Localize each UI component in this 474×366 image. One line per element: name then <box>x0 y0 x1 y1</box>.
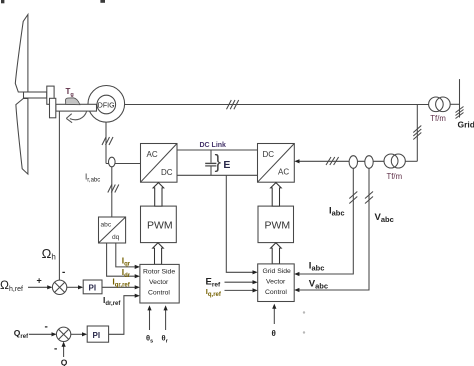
svg-text:Vector: Vector <box>266 279 286 286</box>
svg-text:Iabc: Iabc <box>309 261 325 273</box>
svg-text:Ωh,ref: Ωh,ref <box>0 278 23 293</box>
svg-text:Ωh: Ωh <box>42 246 56 262</box>
svg-text:θr: θr <box>162 334 169 345</box>
svg-text:Vector: Vector <box>149 279 169 286</box>
svg-text:θ: θ <box>272 329 276 338</box>
svg-text:PWM: PWM <box>265 220 291 232</box>
svg-text:PI: PI <box>89 284 97 293</box>
svg-text:+: + <box>37 276 42 286</box>
svg-text:Iabc: Iabc <box>329 206 345 218</box>
svg-text:abc: abc <box>101 222 112 229</box>
svg-text:Control: Control <box>148 290 170 297</box>
svg-text:E: E <box>223 159 230 171</box>
svg-text:Ir,abc: Ir,abc <box>85 173 100 184</box>
svg-text:Grid: Grid <box>458 120 474 130</box>
svg-text:Qref: Qref <box>14 328 29 340</box>
svg-text:Grid Side: Grid Side <box>263 268 292 275</box>
svg-text:Tf/m: Tf/m <box>430 114 446 123</box>
svg-text:dq: dq <box>112 234 120 241</box>
svg-text:Tg: Tg <box>66 87 74 98</box>
svg-text:DC Link: DC Link <box>200 142 227 149</box>
svg-text:-: - <box>54 344 57 355</box>
svg-text:DC: DC <box>263 150 275 159</box>
svg-text:Iq,ref: Iq,ref <box>206 287 222 298</box>
svg-text:Vabc: Vabc <box>375 212 394 224</box>
svg-text:Tf/m: Tf/m <box>387 172 403 181</box>
svg-text:θs: θs <box>146 334 153 345</box>
svg-text:Iqr: Iqr <box>122 256 131 268</box>
svg-text:DFIG: DFIG <box>98 102 115 109</box>
svg-text:-: - <box>45 322 48 333</box>
svg-text:PI: PI <box>93 331 101 340</box>
svg-text:Idr,ref: Idr,ref <box>103 295 121 307</box>
svg-text:DC: DC <box>161 168 173 177</box>
svg-text:-: - <box>62 267 65 278</box>
svg-text:Rotor Side: Rotor Side <box>143 269 175 276</box>
svg-text:Q: Q <box>61 358 68 366</box>
svg-text:AC: AC <box>147 150 158 159</box>
svg-text:}: } <box>215 152 221 173</box>
svg-text:PWM: PWM <box>147 220 173 232</box>
svg-text:Idr: Idr <box>122 267 131 279</box>
svg-text:AC: AC <box>278 168 289 177</box>
svg-text:Control: Control <box>265 289 287 296</box>
svg-text:Vabc: Vabc <box>309 279 328 291</box>
